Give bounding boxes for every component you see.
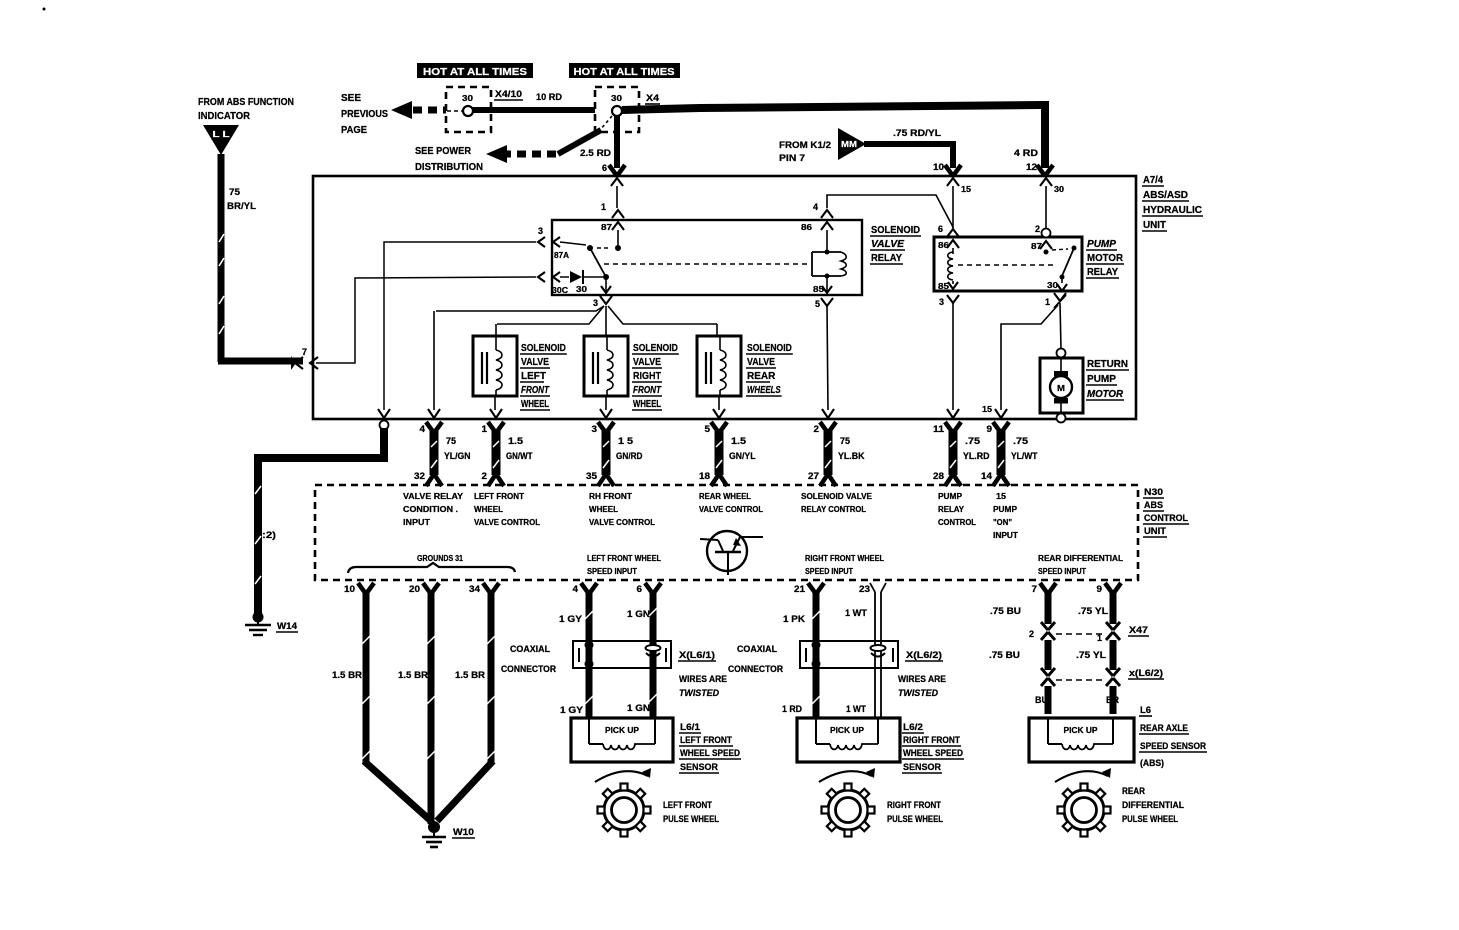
svg-text:4: 4	[420, 424, 426, 434]
wire to pin 7 horizontal	[218, 358, 303, 365]
svg-text:75: 75	[446, 436, 456, 446]
pump relay coil	[952, 248, 954, 254]
svg-text:PULSE WHEEL: PULSE WHEEL	[663, 814, 719, 824]
svg-text:2: 2	[482, 471, 488, 481]
ground symbol W14	[253, 612, 264, 623]
svg-text:SPEED INPUT: SPEED INPUT	[1038, 567, 1086, 576]
ground symbol W10	[428, 821, 440, 833]
ground wire pin 34	[488, 592, 495, 763]
ground wire pin 10	[363, 592, 370, 763]
bottom edge pin chevrons	[378, 409, 390, 418]
relay terminal 30	[605, 277, 607, 295]
svg-text:INPUT: INPUT	[403, 518, 430, 527]
connector x(L6/2)	[1041, 668, 1048, 676]
return pump motor box	[1040, 358, 1083, 413]
svg-text:PUMP: PUMP	[1087, 239, 1116, 250]
svg-text:X(L6/2): X(L6/2)	[906, 650, 942, 660]
wire pin4 to pump relay 86	[827, 195, 953, 227]
wire pin1 branch to pin 15	[1001, 305, 1058, 410]
ground wire pin 20	[428, 592, 435, 824]
ABS control unit N30 box	[315, 485, 1138, 580]
svg-text:PULSE WHEEL: PULSE WHEEL	[887, 814, 943, 824]
pump motor relay box	[934, 237, 1082, 291]
pump relay coil-switch dashed	[958, 264, 1056, 266]
svg-text:2: 2	[1035, 224, 1040, 234]
svg-text:INDICATOR: INDICATOR	[198, 111, 251, 122]
svg-text:VALVE: VALVE	[747, 357, 775, 368]
svg-text:SPEED INPUT: SPEED INPUT	[587, 567, 637, 576]
svg-text:RELAY: RELAY	[871, 253, 902, 264]
svg-text:BR/YL: BR/YL	[227, 201, 257, 211]
connector pin 2/27	[820, 422, 828, 433]
control unit pin 10	[358, 583, 366, 594]
svg-text:9: 9	[1097, 584, 1103, 594]
svg-text:10: 10	[344, 584, 355, 594]
svg-text:W10: W10	[453, 827, 474, 837]
svg-text:15: 15	[961, 185, 972, 194]
svg-text:UNIT: UNIT	[1143, 220, 1166, 231]
connector pin 5/18	[711, 422, 719, 433]
svg-text:SOLENOID: SOLENOID	[871, 225, 920, 236]
svg-text:.75 BU: .75 BU	[990, 606, 1021, 616]
connector pin 4/32	[426, 422, 434, 433]
relay pin 30C chevrons	[538, 272, 545, 282]
wire pin1 to return pump motor	[1060, 303, 1061, 349]
solenoid valve RIGHT	[584, 336, 628, 396]
wire pin 7 to relay 30C	[316, 277, 536, 363]
svg-text:.75 YL: .75 YL	[1076, 650, 1107, 660]
svg-text:VALVE RELAY: VALVE RELAY	[403, 492, 464, 501]
svg-text:MOTOR: MOTOR	[1087, 389, 1124, 400]
svg-text:GN/YL: GN/YL	[729, 451, 756, 461]
svg-text:30: 30	[1054, 185, 1065, 194]
svg-text:VALVE CONTROL: VALVE CONTROL	[589, 518, 655, 527]
off-page triangle LL	[203, 125, 239, 155]
svg-text:WHEEL: WHEEL	[633, 399, 661, 410]
speck	[43, 8, 46, 11]
pulse wheel gear	[1064, 790, 1104, 830]
svg-text:YL.RD: YL.RD	[963, 451, 990, 461]
svg-text:.75 BU: .75 BU	[989, 650, 1020, 660]
svg-text:LEFT FRONT: LEFT FRONT	[474, 492, 524, 501]
svg-text:PICK UP: PICK UP	[830, 726, 865, 735]
coax barrel	[646, 645, 661, 651]
svg-text:7: 7	[302, 347, 307, 357]
svg-text:32: 32	[414, 471, 425, 481]
svg-text:LEFT FRONT WHEEL: LEFT FRONT WHEEL	[587, 554, 661, 563]
svg-text:HOT AT ALL TIMES: HOT AT ALL TIMES	[423, 66, 527, 78]
svg-text:MM: MM	[841, 140, 857, 149]
svg-text:.75 RD/YL: .75 RD/YL	[893, 128, 942, 138]
control unit pin 21	[808, 583, 816, 594]
pump relay switch arm	[1062, 248, 1074, 276]
svg-text:"ON": "ON"	[993, 518, 1012, 527]
coax dots	[585, 641, 594, 650]
svg-text:FROM K1/2: FROM K1/2	[779, 140, 831, 150]
wire 1 GN upper	[650, 592, 657, 718]
svg-text:11: 11	[933, 424, 944, 434]
svg-text:1 GN: 1 GN	[627, 703, 650, 713]
svg-text:x(L6/2): x(L6/2)	[1129, 668, 1163, 678]
svg-text:12: 12	[1026, 162, 1037, 172]
relay terminal 85	[826, 276, 828, 295]
svg-text:1.5: 1.5	[508, 436, 523, 446]
svg-text:3: 3	[592, 424, 598, 434]
svg-text:.75 YL: .75 YL	[1078, 606, 1109, 616]
hatch marks on BR/YL wire	[219, 234, 224, 242]
wire 10 RD	[473, 107, 595, 113]
svg-text:LEFT: LEFT	[521, 371, 546, 382]
connector pin 11/28	[945, 422, 953, 433]
control unit pin 4	[581, 583, 589, 594]
pin 6 connector	[609, 165, 617, 176]
svg-text:6: 6	[637, 584, 643, 594]
wire 1 GY upper	[586, 592, 593, 718]
svg-text:DIFFERENTIAL: DIFFERENTIAL	[1122, 800, 1184, 810]
svg-text:PUMP: PUMP	[938, 492, 963, 501]
wire .75 YL mid	[1110, 640, 1117, 670]
ground wire to W14	[380, 428, 388, 458]
pick up sensor box	[1029, 718, 1134, 762]
junction 3	[600, 296, 612, 304]
coax dots	[812, 641, 821, 650]
svg-text:X4: X4	[646, 93, 659, 103]
svg-text:WHEEL SPEED: WHEEL SPEED	[680, 748, 740, 758]
svg-text:COAXIAL: COAXIAL	[737, 644, 777, 654]
solenoid valve LEFT	[473, 336, 517, 396]
svg-text:75: 75	[840, 436, 850, 446]
svg-text:REAR DIFFERENTIAL: REAR DIFFERENTIAL	[1038, 554, 1123, 563]
hatch sensor wires left	[585, 611, 593, 619]
svg-text:PICK UP: PICK UP	[1064, 726, 1099, 735]
svg-text:INPUT: INPUT	[993, 531, 1018, 540]
diode	[570, 271, 582, 283]
svg-text:VALVE: VALVE	[871, 239, 904, 250]
svg-text:LEFT FRONT: LEFT FRONT	[680, 735, 732, 745]
svg-text:HYDRAULIC: HYDRAULIC	[1143, 205, 1202, 216]
svg-text:6: 6	[602, 163, 607, 173]
return pump motor bobble top	[1057, 349, 1066, 358]
svg-text:9: 9	[987, 424, 993, 434]
return pump motor bobble bottom	[1057, 414, 1066, 423]
svg-text:CONTROL: CONTROL	[938, 518, 976, 527]
solenoid valve relay box	[552, 220, 862, 295]
svg-text:WIRES ARE: WIRES ARE	[898, 674, 946, 684]
svg-text:5: 5	[815, 299, 820, 309]
svg-text:RELAY: RELAY	[1087, 267, 1118, 278]
control unit pin 34	[483, 583, 491, 594]
svg-text:6: 6	[938, 224, 943, 234]
svg-text:1 GY: 1 GY	[560, 705, 583, 715]
transistor	[707, 531, 747, 571]
svg-text:REAR: REAR	[747, 371, 776, 382]
svg-text:COAXIAL: COAXIAL	[510, 644, 550, 654]
svg-text:RIGHT FRONT: RIGHT FRONT	[887, 800, 941, 810]
svg-text:1 PK: 1 PK	[783, 614, 806, 624]
control unit pin 23 (double line)	[870, 583, 875, 592]
svg-text:VALVE CONTROL: VALVE CONTROL	[474, 518, 540, 527]
svg-text:1.5 BR: 1.5 BR	[332, 670, 363, 680]
wire junction to pin 4 bottom	[436, 306, 604, 311]
svg-text:FRONT: FRONT	[633, 385, 662, 396]
svg-text:RH FRONT: RH FRONT	[589, 492, 632, 501]
svg-text:ABS/ASD: ABS/ASD	[1143, 190, 1188, 201]
brace grounds	[348, 563, 515, 573]
rotation arrow	[595, 771, 648, 782]
pin 6 inner	[611, 178, 623, 186]
wire .75 RD/YL	[864, 141, 953, 147]
relay coil	[811, 252, 813, 276]
svg-text:BU: BU	[1035, 695, 1048, 705]
svg-text:.75: .75	[1013, 436, 1028, 446]
svg-text:WHEEL: WHEEL	[589, 505, 618, 514]
connector pin 3/35	[598, 422, 606, 433]
wire to power distribution	[600, 116, 612, 130]
svg-text:REAR: REAR	[1122, 786, 1145, 796]
svg-text:PIN 7: PIN 7	[779, 153, 805, 163]
svg-text:1 GY: 1 GY	[559, 614, 582, 624]
svg-text:(ABS): (ABS)	[1140, 758, 1164, 768]
svg-text:75: 75	[229, 187, 240, 197]
arrow to previous page	[391, 101, 412, 119]
wire junction to rear valve	[608, 306, 717, 324]
svg-text:2: 2	[1029, 629, 1034, 639]
wire pump relay pin3 down	[952, 303, 954, 410]
svg-text:15: 15	[982, 405, 993, 414]
svg-text:.75: .75	[965, 436, 980, 446]
svg-text:VALVE: VALVE	[633, 357, 661, 368]
svg-text:30: 30	[611, 94, 623, 103]
svg-text:WHEELS: WHEELS	[747, 385, 781, 396]
arrow to power distribution	[486, 145, 507, 163]
svg-text:RIGHT FRONT WHEEL: RIGHT FRONT WHEEL	[805, 554, 884, 563]
svg-text:L6/1: L6/1	[680, 722, 700, 732]
fuse connector box 30 (right)	[595, 87, 639, 132]
svg-text:X4/10: X4/10	[495, 89, 522, 99]
solenoid valve REAR	[697, 336, 741, 396]
svg-text:WHEEL: WHEEL	[474, 505, 503, 514]
svg-text:ABS: ABS	[1144, 500, 1163, 510]
svg-text:UNIT: UNIT	[1144, 526, 1167, 536]
svg-text:20: 20	[409, 584, 420, 594]
svg-text:1.5 BR: 1.5 BR	[398, 670, 429, 680]
svg-text:YL.BK: YL.BK	[838, 451, 865, 461]
svg-text:N30: N30	[1144, 487, 1163, 497]
svg-text:SENSOR: SENSOR	[680, 762, 718, 772]
svg-text:REAR WHEEL: REAR WHEEL	[699, 492, 751, 501]
svg-text:YL/WT: YL/WT	[1011, 451, 1038, 461]
svg-text:27: 27	[808, 471, 819, 481]
coaxial connector box	[573, 641, 671, 668]
svg-text:7: 7	[1032, 584, 1038, 594]
pick up sensor box	[571, 718, 673, 762]
svg-text:1 GN: 1 GN	[627, 609, 650, 619]
hydraulic unit A7/4 box	[313, 176, 1136, 419]
wire junction to middle valve	[605, 306, 607, 336]
ground pin bobble	[380, 421, 389, 430]
svg-text:WIRES ARE: WIRES ARE	[679, 674, 727, 684]
svg-text:VALVE: VALVE	[521, 357, 549, 368]
svg-text:CONDITION .: CONDITION .	[403, 505, 458, 514]
pin 10 connector	[945, 165, 953, 176]
svg-text:L L: L L	[213, 129, 230, 139]
svg-text:3: 3	[939, 297, 944, 307]
svg-text:RETURN: RETURN	[1087, 359, 1128, 370]
relay switch arm	[590, 248, 606, 277]
wire BU lower	[1045, 686, 1052, 714]
wire .75 BR/YL vertical	[218, 154, 225, 362]
svg-text:REAR AXLE: REAR AXLE	[1140, 723, 1188, 733]
wire .75 BU mid	[1045, 640, 1052, 670]
svg-text:1 RD: 1 RD	[782, 704, 802, 714]
svg-text:PAGE: PAGE	[341, 125, 367, 136]
svg-text:1: 1	[1045, 297, 1050, 307]
svg-text:4: 4	[813, 202, 818, 212]
svg-text:BR: BR	[1106, 695, 1119, 705]
wire 1 WT upper (double)	[874, 592, 876, 718]
pick up sensor box	[797, 718, 900, 762]
svg-text:PULSE WHEEL: PULSE WHEEL	[1122, 814, 1178, 824]
switch contact dash	[597, 247, 611, 249]
svg-text:35: 35	[586, 471, 597, 481]
svg-text:14: 14	[981, 471, 992, 481]
svg-text:SPEED INPUT: SPEED INPUT	[805, 567, 853, 576]
svg-text:RIGHT FRONT: RIGHT FRONT	[903, 735, 960, 745]
svg-text:5: 5	[705, 424, 711, 434]
svg-text:GN/RD: GN/RD	[616, 451, 643, 461]
svg-text:RELAY CONTROL: RELAY CONTROL	[801, 505, 866, 514]
svg-text:SOLENOID: SOLENOID	[633, 343, 678, 354]
svg-text:3: 3	[538, 226, 543, 236]
svg-text:21: 21	[794, 584, 805, 594]
svg-text:PUMP: PUMP	[1087, 374, 1116, 385]
coaxial connector box	[800, 641, 898, 668]
return pump motor symbol	[1060, 357, 1062, 377]
pin 10 inner / terminal 15	[947, 178, 959, 186]
svg-text:LEFT FRONT: LEFT FRONT	[663, 800, 712, 810]
svg-text:L6/2: L6/2	[903, 722, 923, 732]
svg-text:SEE: SEE	[341, 93, 361, 104]
wire .75 YL upper	[1110, 592, 1117, 624]
relay coil control dashed	[604, 263, 808, 265]
svg-text:10: 10	[933, 162, 944, 172]
off-page triangle MM	[838, 128, 866, 160]
svg-text:PREVIOUS: PREVIOUS	[341, 109, 388, 120]
svg-text:1: 1	[482, 424, 488, 434]
svg-text:MOTOR: MOTOR	[1087, 253, 1124, 264]
svg-text:M: M	[1057, 384, 1065, 393]
control unit pin 20	[423, 583, 431, 594]
svg-text:RIGHT: RIGHT	[633, 371, 661, 382]
connector pin 1/2	[488, 422, 496, 433]
svg-text:30: 30	[576, 285, 588, 294]
svg-text:WHEEL SPEED: WHEEL SPEED	[903, 748, 963, 758]
svg-text:GN/WT: GN/WT	[506, 451, 533, 461]
svg-text::2): :2)	[262, 530, 276, 540]
svg-text:FRONT: FRONT	[521, 385, 550, 396]
wire 1 PK upper	[813, 592, 820, 718]
svg-text:4 RD: 4 RD	[1014, 148, 1039, 158]
hatches on ground wire	[255, 486, 261, 494]
wire .75 BU upper	[1045, 592, 1052, 624]
hatches ground wires	[362, 636, 370, 644]
svg-text:28: 28	[933, 471, 944, 481]
svg-text:18: 18	[699, 471, 710, 481]
svg-text:YL/GN: YL/GN	[444, 451, 471, 461]
svg-text:CONNECTOR: CONNECTOR	[728, 664, 783, 674]
svg-text:30: 30	[462, 94, 474, 103]
svg-text:SOLENOID: SOLENOID	[747, 343, 792, 354]
svg-text:X47: X47	[1129, 625, 1148, 635]
svg-text:CONNECTOR: CONNECTOR	[501, 664, 556, 674]
connector pin 9/14	[993, 422, 1001, 433]
svg-text:TWISTED: TWISTED	[679, 688, 719, 698]
svg-text:PICK UP: PICK UP	[605, 726, 640, 735]
svg-text:HOT AT ALL TIMES: HOT AT ALL TIMES	[574, 66, 675, 78]
hatch sensor wires right	[812, 611, 820, 619]
svg-text:10 RD: 10 RD	[536, 92, 563, 102]
svg-text:87A: 87A	[554, 251, 569, 260]
relay pin 5	[821, 298, 833, 306]
svg-text:VALVE CONTROL: VALVE CONTROL	[699, 505, 763, 514]
svg-text:23: 23	[859, 584, 870, 594]
svg-text:2.5 RD: 2.5 RD	[580, 148, 612, 158]
coax barrel	[871, 645, 886, 651]
connector X47	[1041, 622, 1048, 630]
svg-text:86: 86	[801, 223, 813, 232]
svg-text:1.5 BR: 1.5 BR	[455, 670, 486, 680]
pump relay switch dash	[1052, 249, 1068, 250]
pulse wheel gear	[828, 790, 868, 830]
svg-text:30C: 30C	[552, 286, 568, 295]
wire relay pin3 to ground pin	[384, 242, 536, 410]
wire BR lower	[1110, 686, 1117, 714]
svg-text:1 5: 1 5	[618, 436, 633, 446]
control unit pin 6	[645, 583, 653, 594]
svg-text:2: 2	[814, 424, 820, 434]
svg-text:GROUNDS 31: GROUNDS 31	[417, 554, 463, 563]
wire pin5 to bottom pin 2	[827, 306, 828, 410]
wire 4 RD bus	[622, 105, 1041, 110]
svg-text:X(L6/1): X(L6/1)	[679, 650, 715, 660]
rotation arrow	[1055, 771, 1108, 782]
svg-text:87: 87	[601, 223, 613, 232]
label box HOT AT ALL TIMES (left)	[417, 63, 533, 78]
pin 12 connector	[1037, 165, 1045, 176]
svg-text:3: 3	[593, 298, 598, 308]
svg-text:L6: L6	[1140, 705, 1151, 715]
svg-text:DISTRIBUTION: DISTRIBUTION	[415, 162, 483, 173]
svg-text:PUMP: PUMP	[993, 505, 1018, 514]
svg-text:1 WT: 1 WT	[846, 704, 866, 714]
svg-text:W14: W14	[277, 621, 297, 631]
svg-text:SOLENOID VALVE: SOLENOID VALVE	[801, 492, 873, 501]
svg-text:1.5: 1.5	[731, 436, 746, 446]
svg-text:1 WT: 1 WT	[845, 608, 868, 618]
svg-text:SENSOR: SENSOR	[903, 762, 941, 772]
pin 12 inner / terminal 30	[1040, 178, 1052, 186]
fuse connector box 30 (left)	[446, 87, 491, 132]
svg-text:FROM ABS FUNCTION: FROM ABS FUNCTION	[198, 97, 294, 108]
control unit pin 9	[1105, 583, 1113, 594]
svg-text:SOLENOID: SOLENOID	[521, 343, 566, 354]
control unit pin 7	[1040, 583, 1048, 594]
wire fuse to pin 6	[614, 116, 620, 168]
svg-text:15: 15	[996, 492, 1007, 501]
svg-text:RELAY: RELAY	[938, 505, 965, 514]
svg-text:WHEEL: WHEEL	[521, 399, 549, 410]
pulse wheel gear	[604, 790, 644, 830]
